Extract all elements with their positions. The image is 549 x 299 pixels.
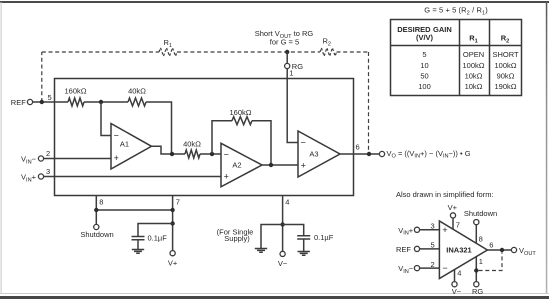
wire VIN- to A1	[44, 158, 111, 160]
svg-text:5: 5	[431, 241, 435, 250]
terminal VIN-	[38, 156, 43, 161]
wire REF simplified	[420, 248, 440, 250]
svg-text:−: −	[301, 138, 306, 148]
svg-text:+: +	[114, 153, 119, 163]
terminal V-	[280, 251, 285, 256]
wire shutdown to supply rail	[96, 209, 172, 211]
svg-text:A2: A2	[232, 161, 241, 170]
svg-text:V+: V+	[168, 259, 178, 268]
node output junction	[367, 152, 371, 156]
node RG tap junction	[285, 50, 289, 54]
svg-text:SHORT: SHORT	[492, 50, 519, 59]
svg-text:Shutdown: Shutdown	[464, 209, 497, 218]
svg-text:100kΩ: 100kΩ	[494, 61, 516, 70]
svg-text:REF: REF	[11, 98, 26, 107]
svg-text:3: 3	[431, 222, 435, 231]
frame bottom hairline	[0, 293, 549, 294]
wire cap to ground	[137, 240, 139, 250]
terminal VIN- simplified	[414, 266, 419, 271]
svg-text:5: 5	[422, 50, 426, 59]
wire pin 4 V- simplified	[454, 270, 456, 282]
svg-text:10kΩ: 10kΩ	[465, 82, 483, 91]
svg-text:10kΩ: 10kΩ	[465, 71, 483, 80]
svg-text:+: +	[301, 161, 306, 171]
IC boundary box	[55, 79, 354, 196]
svg-text:V−: V−	[278, 259, 288, 268]
svg-text:Supply): Supply)	[224, 234, 250, 243]
wire dashed gain-loop top, R1 to RG node	[177, 51, 320, 53]
wire RG stub	[286, 52, 288, 63]
op-amp U1 simplified INA321	[439, 221, 487, 279]
wire A1 output	[152, 146, 186, 154]
svg-text:1: 1	[289, 69, 293, 78]
node pin8 junction	[94, 208, 98, 212]
svg-text:REF: REF	[396, 245, 411, 254]
svg-text:160kΩ: 160kΩ	[229, 108, 251, 117]
svg-text:(V/V): (V/V)	[416, 33, 434, 42]
node pin7 junction	[170, 208, 174, 212]
wire RG into A3 inverting input	[287, 69, 298, 143]
wire pin 4	[282, 195, 284, 251]
svg-text:INA321: INA321	[446, 245, 471, 254]
wire pin4 ground branch	[261, 225, 283, 249]
wire 160k to 40k	[84, 101, 128, 103]
svg-text:40kΩ: 40kΩ	[183, 140, 201, 149]
terminal REF simplified	[414, 246, 419, 251]
node A2 summing junction	[210, 152, 214, 156]
wire A1 inverting input branch	[101, 102, 111, 136]
wire V+ simplified	[452, 218, 454, 229]
terminal V+ simplified	[450, 213, 455, 218]
wire pin4 cap branch	[283, 225, 304, 236]
svg-text:190kΩ: 190kΩ	[494, 82, 516, 91]
frame left border	[1, 2, 2, 293]
resistor 40k series	[185, 150, 200, 158]
wire dashed RG to output	[479, 252, 502, 270]
wire A2 feedback right leg	[252, 121, 271, 165]
svg-text:RG: RG	[472, 287, 483, 296]
terminal Shutdown simplified	[474, 220, 479, 225]
terminal VIN+ simplified	[414, 227, 419, 232]
resistor 160k A1 input	[68, 98, 84, 106]
svg-text:0.1µF: 0.1µF	[314, 233, 334, 242]
capacitor C2 0.1uF	[297, 236, 310, 239]
svg-text:160kΩ: 160kΩ	[64, 87, 86, 96]
svg-text:100: 100	[418, 82, 431, 91]
wire Shutdown simplified	[475, 225, 477, 244]
svg-text:Also drawn in simplified form:: Also drawn in simplified form:	[396, 190, 494, 199]
svg-text:−: −	[224, 149, 229, 159]
svg-text:6: 6	[356, 143, 360, 152]
terminal VIN+	[38, 174, 43, 179]
terminal REF	[27, 99, 32, 104]
wire 40k feedback to A1 output	[146, 102, 172, 154]
resistor 160k A2 feedback	[232, 117, 252, 125]
wire 40k to A2 inverting input	[200, 153, 221, 155]
terminal Shutdown	[94, 224, 99, 229]
wire REF input	[33, 101, 68, 103]
svg-text:4: 4	[285, 197, 289, 206]
resistor R1 (external, dashed)	[159, 48, 177, 56]
svg-text:V−: V−	[452, 287, 462, 296]
svg-text:6: 6	[489, 240, 493, 249]
node A1 out junction	[170, 152, 174, 156]
svg-text:100kΩ: 100kΩ	[462, 61, 484, 70]
gain table divider column 2	[489, 20, 491, 96]
svg-text:2: 2	[46, 149, 50, 158]
frame bottom border	[0, 296, 549, 299]
resistor 40k A1 feedback	[128, 98, 146, 106]
svg-text:2: 2	[431, 260, 435, 269]
node A1 summing junction	[99, 100, 103, 104]
gain table header divider	[391, 45, 522, 47]
svg-text:OPEN: OPEN	[463, 50, 484, 59]
node REF/loop junction	[40, 100, 44, 104]
op-amp A1	[111, 124, 152, 170]
wire VIN+ simplified	[420, 229, 440, 231]
svg-text:+: +	[442, 225, 447, 235]
terminal VOUT simplified	[511, 247, 516, 252]
gain table divider column 1	[459, 20, 461, 96]
capacitor C1 0.1uF	[132, 237, 145, 240]
op-amp A2	[221, 143, 262, 187]
wire dashed gain-loop left vertical	[41, 52, 43, 102]
svg-text:90kΩ: 90kΩ	[497, 71, 515, 80]
svg-text:1: 1	[479, 257, 483, 266]
wire VIN+ to A2	[44, 176, 221, 178]
terminal V+	[170, 251, 175, 256]
wire bypass cap branch	[138, 224, 173, 237]
terminal VO	[379, 151, 384, 156]
svg-text:Shutdown: Shutdown	[80, 230, 113, 239]
svg-text:V+: V+	[448, 203, 458, 212]
wire A2 output to A3	[262, 164, 298, 166]
wire A3 output	[340, 153, 379, 155]
svg-text:5: 5	[48, 93, 52, 102]
resistor R2 (external, dashed)	[320, 48, 337, 56]
wire VIN- simplified	[420, 267, 440, 269]
wire pin 8 shutdown	[95, 195, 97, 224]
node RG junction simplified	[474, 268, 478, 272]
wire C2 to ground	[303, 239, 305, 251]
svg-text:−: −	[442, 263, 447, 273]
svg-text:4: 4	[457, 268, 461, 277]
ground pin4	[255, 249, 267, 253]
svg-text:−: −	[114, 131, 119, 141]
svg-text:7: 7	[456, 220, 460, 229]
terminal RG simplified	[474, 282, 479, 287]
wire A2 feedback left leg	[212, 121, 232, 154]
terminal V- simplified	[452, 282, 457, 287]
wire dashed gain-loop right vertical to output	[368, 52, 370, 153]
svg-text:3: 3	[46, 167, 50, 176]
node output junction simplified	[500, 248, 504, 252]
svg-text:A1: A1	[120, 139, 129, 148]
wire dashed gain-loop top, right of R2	[337, 51, 369, 53]
svg-text:0.1µF: 0.1µF	[148, 234, 168, 243]
svg-text:8: 8	[99, 197, 103, 206]
op-amp A3	[298, 131, 340, 177]
wire dashed gain-loop top, left of R1	[42, 51, 159, 53]
ground C1	[132, 250, 144, 254]
wire output simplified	[487, 249, 511, 251]
svg-text:40kΩ: 40kΩ	[128, 87, 146, 96]
frame top border	[0, 1, 549, 3]
node A2 out junction	[269, 163, 273, 167]
svg-text:for G = 5: for G = 5	[270, 38, 299, 47]
svg-text:+: +	[224, 172, 229, 182]
node pin4 junction	[280, 222, 284, 226]
wire pin 1 RG simplified	[475, 257, 477, 282]
svg-text:RG: RG	[292, 62, 303, 71]
node cap branch junction	[170, 221, 174, 225]
svg-text:A3: A3	[309, 149, 318, 158]
svg-text:10: 10	[420, 61, 428, 70]
ground C2	[298, 252, 310, 256]
wire pin 7 supply	[172, 195, 174, 251]
gain table box	[391, 20, 522, 96]
svg-text:7: 7	[176, 197, 180, 206]
terminal RG	[285, 63, 290, 68]
svg-text:8: 8	[479, 235, 483, 244]
svg-text:50: 50	[420, 71, 428, 80]
